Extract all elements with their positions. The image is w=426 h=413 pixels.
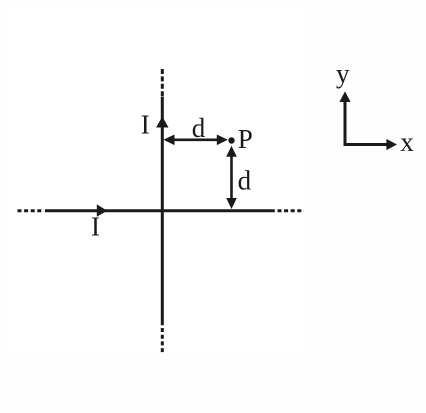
wire: vertical wire bottom dashed extension xyxy=(161,328,164,354)
wire: vertical wire top dashed extension xyxy=(161,69,164,96)
svg-text:x: x xyxy=(400,127,414,157)
current arrow on vertical wire (upward) xyxy=(156,117,168,128)
dimension arrow d (horizontal, from vertical wire to P) xyxy=(166,139,225,142)
current arrow on horizontal wire (rightward) xyxy=(97,204,107,216)
wire: vertical wire solid segment xyxy=(161,97,164,326)
y-axis arrowhead xyxy=(339,91,350,102)
wire: horizontal wire solid segment xyxy=(45,209,275,212)
x-axis line xyxy=(344,143,388,146)
svg-text:y: y xyxy=(336,58,350,88)
svg-text:I: I xyxy=(141,110,150,140)
svg-text:P: P xyxy=(238,124,253,154)
wire: horizontal wire left dashed extension xyxy=(18,209,45,212)
x-axis arrowhead xyxy=(386,139,397,150)
diagram white canvas xyxy=(8,8,305,355)
svg-text:d: d xyxy=(192,113,206,143)
wire: horizontal wire right dashed extension xyxy=(278,209,305,212)
svg-text:d: d xyxy=(238,166,252,196)
node P dot xyxy=(228,137,234,143)
y-axis line xyxy=(344,102,347,145)
dimension arrow d (vertical, from P down to horizontal wire) xyxy=(230,149,233,206)
svg-text:I: I xyxy=(91,211,100,241)
